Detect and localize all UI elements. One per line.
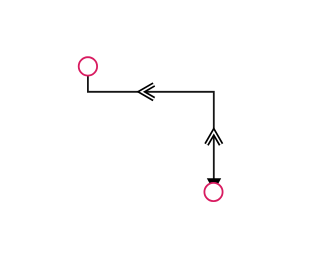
wire — [88, 76, 214, 181]
node circle (top left) — [79, 57, 97, 75]
node circle (bottom right) — [204, 183, 222, 201]
filled arrowhead (points down into bottom node) — [207, 178, 221, 191]
open chevron arrow (points left) on horizontal wire — [141, 85, 154, 100]
open chevron arrow (points up) on vertical wire — [207, 132, 222, 145]
